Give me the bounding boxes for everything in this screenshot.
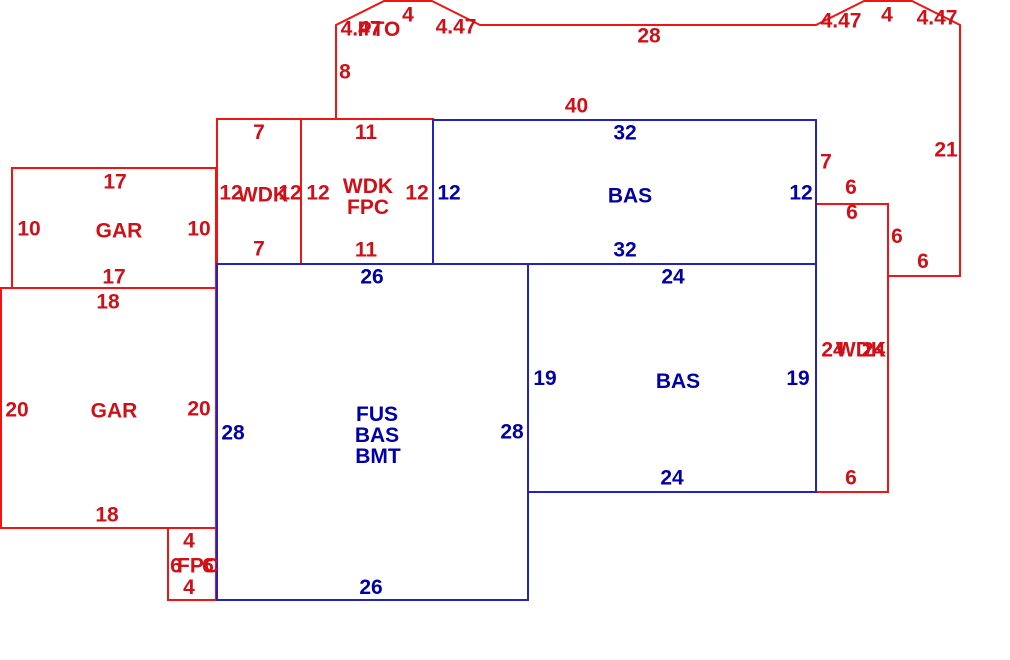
- PTO patio outline: [336, 1, 960, 276]
- svg-text:10: 10: [187, 218, 210, 241]
- svg-text:4: 4: [402, 4, 414, 27]
- svg-text:GAR: GAR: [96, 220, 143, 243]
- svg-text:11: 11: [355, 121, 378, 144]
- svg-text:4: 4: [881, 4, 893, 27]
- svg-text:32: 32: [613, 239, 636, 262]
- svg-text:18: 18: [96, 291, 120, 314]
- svg-text:11: 11: [355, 239, 378, 262]
- svg-text:17: 17: [103, 171, 126, 194]
- svg-text:BAS: BAS: [608, 185, 652, 208]
- svg-text:BMT: BMT: [355, 445, 401, 468]
- wood deck WDK1 box: [217, 119, 301, 264]
- svg-text:6: 6: [845, 467, 857, 490]
- porch FPC2 box: [168, 528, 216, 600]
- svg-text:7: 7: [820, 151, 832, 174]
- svg-text:FUS: FUS: [356, 403, 398, 426]
- svg-text:BAS: BAS: [656, 370, 700, 393]
- svg-text:28: 28: [221, 422, 245, 445]
- svg-text:24: 24: [862, 339, 886, 362]
- svg-text:6: 6: [202, 555, 214, 578]
- svg-text:6: 6: [846, 201, 858, 224]
- svg-text:12: 12: [278, 182, 301, 205]
- svg-text:WDK: WDK: [343, 175, 393, 198]
- svg-text:4: 4: [183, 530, 195, 553]
- svg-text:4.47: 4.47: [436, 16, 477, 39]
- svg-text:6: 6: [891, 225, 903, 248]
- svg-text:BAS: BAS: [355, 424, 399, 447]
- svg-text:PTO: PTO: [358, 18, 401, 41]
- svg-text:8: 8: [339, 61, 351, 84]
- garage GAR1 box: [12, 168, 216, 288]
- svg-text:6: 6: [845, 176, 857, 199]
- svg-text:12: 12: [306, 182, 329, 205]
- svg-text:4.47: 4.47: [821, 10, 862, 33]
- svg-text:6: 6: [917, 250, 929, 273]
- svg-text:32: 32: [613, 122, 636, 145]
- svg-text:28: 28: [500, 421, 524, 444]
- svg-text:17: 17: [102, 266, 125, 289]
- svg-text:7: 7: [253, 238, 265, 261]
- svg-text:26: 26: [360, 266, 383, 289]
- FUS-BAS-BMT box: [217, 264, 528, 600]
- svg-text:19: 19: [786, 367, 809, 390]
- svg-text:21: 21: [934, 139, 958, 162]
- svg-text:12: 12: [789, 182, 812, 205]
- svg-text:24: 24: [661, 266, 685, 289]
- svg-text:4.47: 4.47: [917, 7, 958, 30]
- svg-text:GAR: GAR: [91, 400, 138, 423]
- wood deck / porch WDK-FPC box: [301, 119, 433, 264]
- svg-text:28: 28: [637, 25, 661, 48]
- svg-text:18: 18: [95, 504, 119, 527]
- base area BAS1 box: [433, 120, 816, 264]
- svg-text:24: 24: [660, 467, 684, 490]
- svg-text:40: 40: [565, 95, 588, 118]
- garage GAR2 box: [1, 288, 216, 528]
- svg-text:12: 12: [405, 182, 428, 205]
- svg-text:20: 20: [187, 398, 210, 421]
- base area BAS2 box: [528, 264, 816, 492]
- svg-text:7: 7: [253, 121, 265, 144]
- svg-text:12: 12: [437, 182, 460, 205]
- svg-text:19: 19: [533, 367, 556, 390]
- svg-text:20: 20: [5, 399, 28, 422]
- svg-text:4: 4: [183, 576, 195, 599]
- svg-text:FPC: FPC: [347, 196, 389, 219]
- svg-text:26: 26: [359, 576, 382, 599]
- wood deck WDK2 right box: [816, 204, 888, 492]
- svg-text:10: 10: [17, 218, 40, 241]
